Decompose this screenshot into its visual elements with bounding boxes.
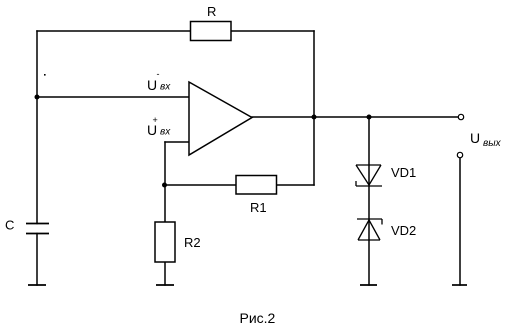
- svg-text:VD2: VD2: [391, 223, 416, 238]
- svg-text:U: U: [147, 77, 157, 93]
- svg-text:+: +: [153, 115, 158, 125]
- output terminal lower: [457, 152, 462, 157]
- output terminal upper: [458, 114, 463, 119]
- op-amp U1: [189, 82, 252, 155]
- wire output terminal lower vertical: [459, 158, 461, 286]
- wire output: [252, 116, 459, 118]
- wire right feedback vertical: [313, 31, 315, 185]
- svg-text:U: U: [470, 130, 480, 146]
- wire R2 bottom: [164, 262, 166, 285]
- wire zener branch: [368, 117, 370, 285]
- zener diode VD2: [357, 219, 382, 240]
- wire noninverting input horizontal: [165, 141, 189, 143]
- svg-text:Рис.2: Рис.2: [240, 310, 276, 326]
- zener diode VD1: [356, 165, 382, 186]
- svg-text:вх: вх: [160, 127, 171, 138]
- svg-text:C: C: [5, 218, 14, 233]
- resistor R1: [236, 176, 277, 195]
- wire inverting input: [37, 96, 189, 98]
- junction dot R1/R2 node: [162, 183, 167, 188]
- wire capacitor bottom: [36, 234, 38, 286]
- wire top horizontal right segment: [231, 30, 314, 32]
- svg-text:вх: вх: [160, 82, 171, 93]
- resistor R2: [155, 222, 175, 262]
- ground capacitor: [28, 284, 46, 286]
- svg-text:VD1: VD1: [391, 165, 416, 180]
- resistor R: [191, 22, 232, 41]
- wire left vertical: [36, 31, 38, 224]
- junction dot zener branch node: [367, 115, 372, 120]
- wire top horizontal left segment: [37, 30, 191, 32]
- junction dot feedback/output node: [312, 115, 317, 120]
- junction dot at inverting input node: [35, 95, 40, 100]
- svg-text:R1: R1: [250, 200, 267, 215]
- wire noninverting vertical: [164, 142, 166, 222]
- svg-text:-: -: [157, 69, 160, 79]
- wire R1 right: [277, 184, 315, 186]
- capacitor C: [26, 224, 49, 234]
- stray dot mark: [44, 74, 46, 76]
- svg-text:R2: R2: [184, 235, 201, 250]
- svg-text:R: R: [207, 4, 216, 19]
- svg-text:вых: вых: [483, 138, 502, 149]
- ground zener branch: [360, 284, 377, 286]
- ground output: [452, 284, 467, 286]
- wire R1 left: [165, 184, 236, 186]
- ground R2: [156, 284, 174, 286]
